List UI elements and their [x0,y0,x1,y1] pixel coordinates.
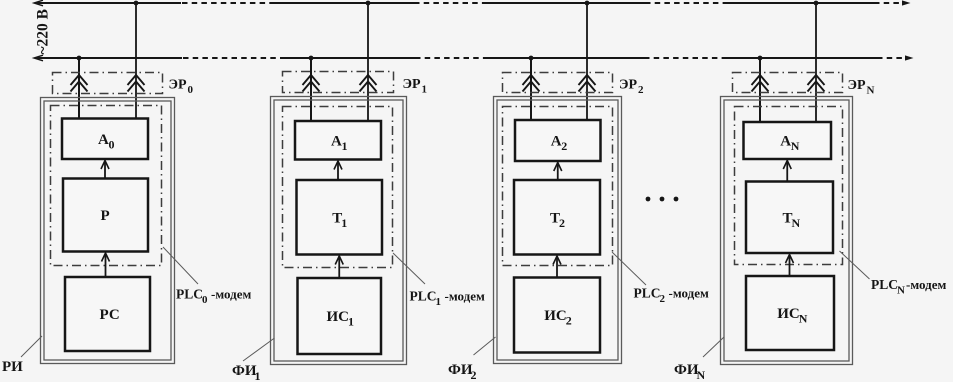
block ТN (transceiver) [746,182,833,254]
svg-text:PLC: PLC [634,286,661,301]
svg-text:1: 1 [342,139,348,153]
label PLCN-модем with leader [840,251,947,297]
arrow chevrons on unit 0 l drop [71,75,88,92]
svg-text:РИ: РИ [2,359,23,375]
wire: arrow ИС to Т in unit N [786,255,794,277]
svg-text:-модем: -модем [669,286,709,301]
label РИ with leader [2,336,42,375]
block РС (source/PC) [65,277,150,351]
svg-text:PLC: PLC [176,287,203,302]
svg-text:2: 2 [638,84,644,96]
wire: arrow Р to А in unit 0 [101,161,109,179]
label ЭР1 [403,77,428,96]
wire: arrow РС to Р in unit 0 [102,253,110,277]
ellipsis dots between unit 2 and unit N [646,197,679,202]
wire: unit 0 right drop to L1 with junction [134,1,139,119]
block Р (repeater) [63,179,148,252]
label ФИ1 with leader [232,338,275,382]
block PLCN modem boundary (dash-dot) [735,107,843,265]
block PLC2 modem boundary (dash-dot) [503,107,613,266]
svg-text:2: 2 [660,293,666,305]
block PLC0 modem boundary (dash-dot) [51,106,162,266]
svg-text:2: 2 [561,139,567,153]
block А2 (amplifier) [515,120,601,161]
block unit 2 outer double-line enclosure [494,97,622,364]
wire: unit 1 left drop to L2 with junction [309,56,314,121]
block А1 (amplifier) [295,121,381,160]
block ИСN (source/PC) [746,276,834,350]
wire: unit 2 left drop to L2 with junction [529,56,534,120]
svg-text:~220 В: ~220 В [35,9,52,55]
svg-text:ФИ: ФИ [448,362,473,378]
svg-text:0: 0 [202,294,208,306]
svg-text:PLC: PLC [871,277,898,292]
label ЭРN [848,78,875,97]
svg-text:2: 2 [471,368,477,382]
svg-text:PLC: PLC [410,289,437,304]
wire: arrow Т to А in unit 1 [334,161,342,180]
svg-text:ЭР: ЭР [848,78,866,93]
label PLC2-модем with leader [612,252,709,305]
block Т2 (transceiver) [514,180,600,255]
label ~220 V [35,9,52,55]
block unit 1 outer double-line enclosure [271,97,407,365]
svg-text:N: N [697,368,706,382]
wire: arrow ИС to Т in unit 1 [335,256,343,278]
svg-text:N: N [799,312,808,326]
svg-text:-модем: -модем [445,289,485,304]
svg-text:1: 1 [341,216,347,230]
block ЭРN coupling box (dash-dot) [733,73,843,93]
block А0 (amplifier) [62,119,148,160]
svg-text:А: А [780,134,791,150]
arrow chevrons on unit 2 l drop [523,75,540,92]
block ИС1 (source/PC) [298,278,382,354]
svg-text:2: 2 [566,314,572,328]
arrow chevrons on unit 2 r drop [579,75,596,92]
wire: unit 1 right drop to L1 with junction [366,1,371,121]
svg-text:0: 0 [109,137,115,151]
wire: arrow Т to А in unit N [783,161,791,182]
arrow chevrons on unit N l drop [752,75,769,92]
svg-text:А: А [331,133,342,149]
wire: unit N right drop to L1 with junction [814,1,819,122]
svg-text:N: N [897,285,905,297]
label ЭР2 [619,78,644,97]
block ЭР0 coupling box (dash-dot) [53,73,163,94]
svg-text:ЭР: ЭР [169,78,187,93]
svg-text:Р: Р [101,208,110,224]
arrow chevrons on unit 1 l drop [303,75,320,92]
block ЭР1 coupling box (dash-dot) [283,72,394,93]
svg-text:N: N [791,139,800,153]
block PLC1 modem boundary (dash-dot) [283,107,393,268]
svg-text:ФИ: ФИ [232,363,257,379]
label PLC1-модем with leader [393,253,485,308]
svg-text:1: 1 [348,315,354,329]
svg-text:1: 1 [255,369,261,382]
arrow chevrons on unit 0 r drop [128,75,145,92]
label PLC0-модем with leader [163,247,251,306]
arrow chevrons on unit N r drop [808,75,825,92]
label ФИN with leader [674,337,724,382]
block unit N outer double-line enclosure [721,97,853,365]
block АN (amplifier) [744,122,832,159]
block ЭР2 coupling box (dash-dot) [503,73,613,93]
svg-text:ИС: ИС [777,306,800,322]
svg-text:0: 0 [188,84,194,96]
svg-text:1: 1 [422,84,428,96]
wire: arrow Т to А in unit 2 [554,163,562,181]
svg-text:ИС: ИС [544,308,567,324]
wire: unit 0 left drop to L2 with junction [77,56,82,119]
svg-text:2: 2 [559,216,565,230]
svg-text:ИС: ИС [327,309,350,325]
wire: arrow ИС to Т in unit 2 [553,256,561,278]
svg-text:А: А [551,134,562,150]
svg-text:А: А [98,132,109,148]
svg-text:ФИ: ФИ [674,362,699,378]
label ФИ2 with leader [448,337,496,382]
svg-text:N: N [792,216,801,230]
wire: power line L2 (neutral, bottom) [34,55,914,61]
wire: power line L1 (phase, top) [34,0,911,6]
block ИС2 (source/PC) [514,278,600,353]
wire: unit 2 right drop to L1 with junction [585,1,590,120]
svg-text:-модем: -модем [906,277,946,292]
svg-text:ЭР: ЭР [619,78,637,93]
wire: unit N left drop to L2 with junction [758,56,763,122]
svg-text:N: N [867,85,875,97]
block Т1 (transceiver) [297,180,383,255]
svg-text:ЭР: ЭР [403,77,421,92]
svg-text:1: 1 [436,296,442,308]
arrow chevrons on unit 1 r drop [360,75,377,92]
svg-text:РС: РС [100,307,120,323]
label ЭР0 [169,78,194,97]
block unit 0 outer double-line enclosure [41,98,175,364]
svg-text:-модем: -модем [211,287,251,302]
